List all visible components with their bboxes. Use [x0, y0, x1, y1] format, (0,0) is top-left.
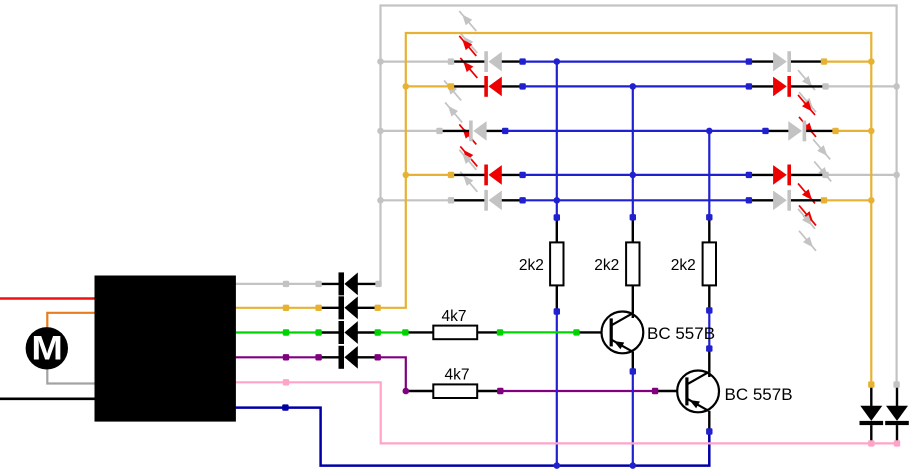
svg-text:2k2: 2k2	[671, 257, 696, 274]
svg-text:M: M	[31, 329, 63, 367]
svg-text:2k2: 2k2	[594, 257, 619, 274]
svg-text:BC 557B: BC 557B	[725, 385, 793, 404]
svg-text:BC 557B: BC 557B	[647, 324, 715, 343]
svg-text:4k7: 4k7	[442, 308, 467, 325]
svg-text:4k7: 4k7	[445, 366, 470, 383]
svg-text:2k2: 2k2	[519, 257, 544, 274]
